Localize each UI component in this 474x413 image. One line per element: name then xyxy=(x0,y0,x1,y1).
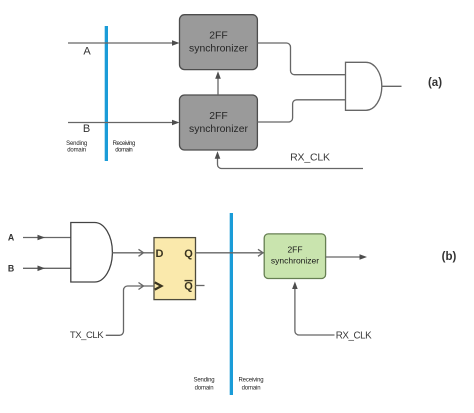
svg-text:synchronizer: synchronizer xyxy=(271,256,319,266)
svg-text:RX_CLK: RX_CLK xyxy=(290,151,330,163)
svg-text:Sending: Sending xyxy=(194,378,215,384)
wire FF1 Qbar stub xyxy=(196,285,205,287)
2FF synchronizer U1 (top box) xyxy=(180,15,258,70)
wire A (top input A to synchronizer U1) xyxy=(68,40,180,46)
wire G1 output xyxy=(382,85,402,87)
svg-text:synchronizer: synchronizer xyxy=(189,124,248,135)
clock-domain boundary line (top) xyxy=(105,26,108,161)
svg-text:domain: domain xyxy=(242,386,261,392)
svg-text:Sending: Sending xyxy=(66,141,87,147)
svg-text:domain: domain xyxy=(195,386,214,392)
svg-text:2FF: 2FF xyxy=(287,245,302,255)
svg-text:domain: domain xyxy=(67,148,86,154)
svg-text:(a): (a) xyxy=(428,77,442,89)
wire B (top input B to synchronizer U2) xyxy=(68,120,180,126)
flip-flop FF1 xyxy=(154,238,196,300)
wire RX_CLK to U2 (top) xyxy=(215,151,363,168)
svg-text:(b): (b) xyxy=(442,251,457,263)
svg-text:TX_CLK: TX_CLK xyxy=(70,330,104,341)
svg-text:2FF: 2FF xyxy=(209,30,227,41)
sending domain label (top) xyxy=(66,141,87,154)
svg-text:domain: domain xyxy=(115,148,132,154)
wire RX_CLK to U3 (bottom) xyxy=(292,282,334,336)
receiving domain label (bottom) xyxy=(239,378,264,392)
svg-text:Q: Q xyxy=(184,281,193,293)
wire FF1 Q to synchronizer U3 xyxy=(196,249,265,256)
wire U2 to U1 (vertical clock share arrow) xyxy=(215,71,221,95)
wire G2 output to flip-flop D input xyxy=(112,249,154,256)
wire U3 output xyxy=(326,254,367,260)
svg-text:RX_CLK: RX_CLK xyxy=(336,330,372,341)
wire U2 output to AND gate input 2 xyxy=(257,100,345,122)
svg-text:Receiving: Receiving xyxy=(239,378,264,384)
svg-text:A: A xyxy=(8,233,15,243)
wire U1 output to AND gate input 1 xyxy=(257,43,345,75)
svg-text:B: B xyxy=(83,123,90,135)
svg-text:A: A xyxy=(83,46,91,58)
svg-text:2FF: 2FF xyxy=(209,111,227,122)
svg-text:synchronizer: synchronizer xyxy=(189,43,248,54)
2FF synchronizer U3 (green box) xyxy=(264,234,325,279)
sending domain label (bottom) xyxy=(194,378,215,392)
svg-text:D: D xyxy=(156,248,164,260)
receiving domain label (top) xyxy=(113,141,135,154)
svg-text:Q: Q xyxy=(184,248,193,260)
svg-text:Receiving: Receiving xyxy=(113,141,135,147)
svg-text:B: B xyxy=(8,263,14,273)
AND gate G1 (a) xyxy=(346,62,382,110)
wire A (bottom input A to AND gate) xyxy=(23,235,71,241)
2FF synchronizer U2 (bottom box of top section) xyxy=(180,95,258,150)
wire TX_CLK to FF1 clock xyxy=(106,283,154,336)
AND gate G2 (b) xyxy=(71,223,113,283)
wire B (bottom input B to AND gate) xyxy=(23,266,71,272)
clock-domain boundary line (bottom) xyxy=(230,213,233,395)
